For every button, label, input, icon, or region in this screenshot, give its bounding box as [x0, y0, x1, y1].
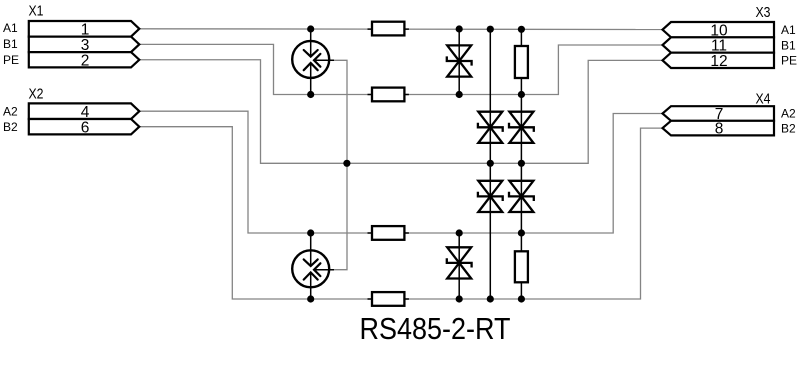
TVS diode D5 (PE rail to wire A2, right of pair 2): [509, 163, 534, 233]
label A2 left: [3, 105, 18, 119]
junction dot wire B2 / R6: [518, 295, 525, 302]
svg-text:A2: A2: [781, 107, 796, 121]
gas discharge tube F1 (3-electrode arrester, top): [292, 29, 334, 95]
X4 pin 8 number: [715, 121, 724, 138]
junction dot wire B1 / GDT1: [307, 91, 314, 98]
svg-text:X3: X3: [756, 5, 771, 21]
TVS diode D1 (wire A1 to wire B1): [447, 29, 472, 95]
svg-text:PE: PE: [3, 53, 19, 67]
svg-text:B1: B1: [781, 38, 796, 52]
svg-text:PE: PE: [781, 54, 797, 68]
label A1 right: [781, 23, 796, 37]
junction dot wire B2 / D4: [487, 295, 494, 302]
TVS diode D3 (wire B1 to PE rail, right of pair 1): [509, 95, 534, 164]
svg-text:2: 2: [81, 52, 90, 69]
label A2 right: [781, 107, 796, 121]
junction dot PE rail / D3 D5: [518, 160, 525, 167]
svg-text:A1: A1: [781, 23, 796, 37]
X3 pin 10 number: [710, 22, 728, 39]
svg-text:X1: X1: [29, 3, 44, 19]
label B2 left: [3, 120, 18, 134]
svg-text:B2: B2: [3, 120, 18, 134]
junction dot wire B2 / GDT2: [307, 295, 314, 302]
wire B1 net (X1 pin3 to X3 pin11): [139, 44, 662, 94]
svg-text:8: 8: [715, 121, 724, 138]
label PE left: [3, 53, 19, 67]
connector X4: [663, 106, 775, 135]
junction dot PE rail / D2 D4: [487, 160, 494, 167]
X3 pin 12 number: [710, 53, 727, 70]
X2 label: [29, 86, 44, 102]
resistor R1 (series in wire A1): [368, 22, 409, 36]
title RS485-2-RT: [360, 312, 511, 346]
label PE right: [781, 54, 797, 68]
label B1 left: [3, 37, 18, 51]
resistor R4 (series in wire B2): [368, 292, 409, 306]
X2 pin 6 number: [81, 119, 90, 136]
connector X2: [29, 103, 140, 134]
resistor R2 (series in wire B1): [368, 88, 409, 102]
TVS diode D4 (PE rail to wire B2, left of pair 2): [478, 163, 503, 299]
X1 pin 3 number: [81, 37, 90, 54]
X3 pin 11 number: [711, 38, 727, 55]
junction dot wire A1 / R5: [518, 26, 525, 33]
label B2 right: [781, 121, 796, 135]
svg-text:X4: X4: [756, 91, 771, 107]
junction dot PE rail / GDT electrodes: [343, 160, 350, 167]
junction dot wire A2 / GDT2: [307, 229, 314, 236]
gas discharge tube F2 (3-electrode arrester, bottom): [292, 233, 334, 299]
resistor R3 (series in wire A2): [368, 226, 409, 240]
junction dot wire A1 / D1: [456, 25, 463, 32]
svg-text:12: 12: [710, 53, 727, 70]
junction dot wire B1 / R5 and D3: [518, 91, 525, 98]
svg-text:RS485-2-RT: RS485-2-RT: [360, 312, 511, 346]
junction dot wire A1 / GDT1: [307, 25, 314, 32]
X4 label: [756, 91, 771, 107]
TVS diode D2 (wire A1 to PE rail, left of pair 1): [478, 29, 503, 163]
junction dot wire A2 / D5 and R6: [518, 229, 525, 236]
junction dot wire A1 / D2: [487, 26, 494, 33]
svg-text:A1: A1: [3, 21, 18, 35]
TVS diode D6 (wire A2 to wire B2): [447, 233, 472, 299]
X1 pin 2 number: [81, 52, 90, 69]
junction dot wire B2 / D6: [456, 295, 463, 302]
X3 label: [756, 5, 771, 21]
resistor R6 vertical (wire A2 to wire B2): [515, 233, 528, 299]
junction dot wire A2 / D6: [456, 229, 463, 236]
X4 pin 7 number: [715, 106, 724, 123]
label A1 left: [3, 21, 18, 35]
svg-text:1: 1: [81, 21, 90, 38]
svg-text:X2: X2: [29, 86, 44, 102]
label B1 right: [781, 38, 796, 52]
X1 label: [29, 3, 44, 19]
X1 pin 1 number: [81, 21, 90, 38]
svg-text:A2: A2: [3, 105, 18, 119]
svg-text:B2: B2: [781, 121, 796, 135]
svg-text:4: 4: [81, 104, 90, 121]
resistor R5 vertical (wire A1 to wire B1): [515, 29, 528, 95]
wire GDT1 center electrode to PE rail: [333, 60, 347, 163]
connector X1: [29, 21, 140, 67]
wire B2 net (X2 pin6 to X4 pin8): [139, 127, 662, 299]
svg-text:6: 6: [81, 119, 90, 136]
junction dot wire B1 / D1: [456, 91, 463, 98]
wire PE rail (X1 pin2 to X3 pin12): [139, 60, 662, 164]
wire A2 net (X2 pin4 to X4 pin7): [139, 111, 662, 233]
wire GDT2 center electrode to PE rail: [333, 163, 347, 269]
svg-text:B1: B1: [3, 37, 18, 51]
connector X3: [663, 22, 775, 68]
X2 pin 4 number: [81, 104, 90, 121]
wire A1 net (X1 pin1 to X3 pin10): [139, 28, 662, 31]
